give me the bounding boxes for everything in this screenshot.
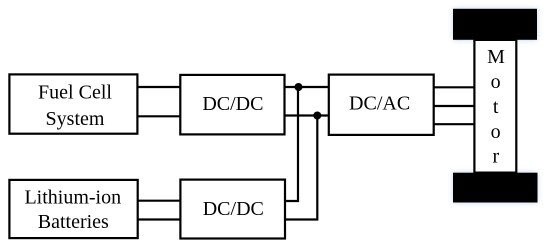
wire dcac to motor phase 2 [434,105,475,107]
wire fuel cell to dcdc1 lower [137,115,180,117]
wire dcdc2 upper output up to node A [285,87,298,201]
svg-text:DC/DC: DC/DC [202,93,263,115]
wire dcdc1 to dcac upper [285,86,329,88]
block DC/DC converter 1 [180,75,284,134]
svg-text:System: System [46,108,105,130]
svg-text:Fuel Cell: Fuel Cell [38,82,112,104]
wire dcdc2 lower output up to node B [285,116,317,220]
block Lithium-ion Batteries [9,180,137,238]
block Fuel Cell System [9,74,137,133]
svg-text:Lithium-ion: Lithium-ion [24,186,121,208]
motor shaft end bottom (black bar) [453,173,538,203]
svg-text:DC/DC: DC/DC [203,198,264,220]
svg-text:M: M [487,46,505,68]
wire fuel cell to dcdc1 upper [137,86,180,88]
block DC/DC converter 2 [180,180,285,239]
wire batteries to dcdc2 upper [138,200,181,202]
motor body [474,40,516,173]
svg-text:t: t [493,96,499,118]
wire dcdc1 to dcac lower [285,114,329,116]
wire batteries to dcdc2 lower [138,218,181,220]
svg-text:o: o [491,71,501,93]
wire dcac to motor phase 1 [434,86,475,88]
svg-text:DC/AC: DC/AC [349,93,410,115]
motor shaft end top (black bar) [453,9,537,40]
svg-text:o: o [491,121,501,143]
block DC/AC inverter [329,75,434,135]
node B junction dot [313,112,321,120]
svg-text:Batteries: Batteries [38,211,109,233]
svg-text:r: r [492,145,499,167]
wire dcac to motor phase 3 [434,123,475,125]
node A junction dot [295,83,303,91]
